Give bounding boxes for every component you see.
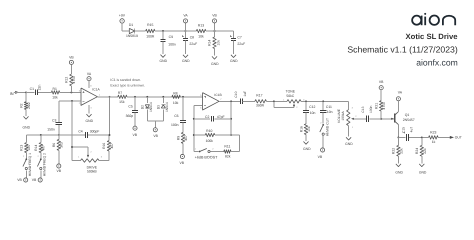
svg-text:100R: 100R [146,35,155,39]
resistor R4 [19,143,31,159]
node junction C6 [182,96,184,98]
svg-text:+6dB BOOST: +6dB BOOST [195,155,218,159]
svg-text:R14: R14 [34,145,38,151]
ground [86,114,94,123]
wire [347,101,349,110]
svg-text:1uF: 1uF [243,91,247,97]
resistor R7 [118,91,127,104]
svg-text:100n: 100n [369,105,373,113]
node junction bias [70,91,72,93]
wire boost jog [231,135,240,152]
power VB bias [69,56,74,75]
svg-text:GND: GND [23,126,31,130]
capacitor C15 [402,127,414,141]
resistor R11 [224,145,231,159]
svg-text:R24: R24 [415,148,419,154]
svg-text:IC1B: IC1B [214,93,222,97]
wire [122,30,129,32]
svg-text:VB: VB [180,161,185,165]
wire [266,100,287,102]
wire [60,91,81,93]
svg-text:360p: 360p [126,114,134,118]
capacitor C13 [361,105,373,122]
svg-text:C10: C10 [234,91,238,97]
label +6dB BOOST [195,155,218,159]
svg-text:C12: C12 [309,105,315,109]
svg-text:Exact type is unknown.: Exact type is unknown. [110,84,145,88]
node junction fb2b [230,134,232,136]
svg-text:VB: VB [69,56,74,60]
transistor Q1 [391,104,415,137]
svg-text:VA: VA [87,72,92,76]
resistor R3 [102,141,114,151]
svg-text:1N5819: 1N5819 [126,34,138,38]
svg-text:22k: 22k [399,148,403,154]
svg-text:R1: R1 [53,87,57,91]
power VB C5 [133,126,138,137]
svg-text:4k7: 4k7 [110,143,114,149]
svg-text:2N5457: 2N5457 [403,118,415,122]
svg-text:R7: R7 [118,91,122,95]
svg-text:15k: 15k [119,100,125,104]
svg-text:Q1: Q1 [405,113,410,117]
wire [242,100,255,102]
capacitor C1 [30,84,42,95]
svg-text:C6: C6 [174,114,178,118]
svg-text:C8: C8 [190,35,194,39]
wire [369,118,394,120]
wire [25,92,27,101]
switch SW4 cut [320,122,327,148]
logo aion [412,13,455,25]
node junction source [397,136,399,138]
resistor R9 [176,132,188,154]
svg-text:1k: 1k [432,140,436,144]
ground [345,137,353,146]
node junction gate [380,118,382,120]
svg-text:GND: GND [230,59,238,63]
svg-text:aionfx.com: aionfx.com [416,58,458,68]
op-amp IC1A [79,85,101,110]
wire [88,105,90,114]
svg-text:VB: VB [57,169,62,173]
node junction D2 [146,96,148,98]
svg-text:1N914: 1N914 [149,102,153,112]
potentiometer VOLUME [337,106,366,129]
svg-text:VB: VB [133,133,138,137]
svg-text:IC1A: IC1A [92,88,100,92]
svg-text:C1: C1 [30,87,34,91]
diode D2 [141,97,153,121]
wire [26,134,85,136]
power VB diodes [153,128,158,138]
power VB SW4 [318,148,325,159]
power VB SW1 [17,178,28,182]
ground [395,164,403,174]
node junction fb2a [230,118,232,120]
capacitor C5 [126,97,138,126]
wire [147,121,163,128]
svg-text:VB: VB [32,178,37,182]
svg-text:4k7: 4k7 [184,135,188,141]
power VB [212,13,217,31]
svg-text:10k: 10k [173,101,179,105]
resistor R13 [186,24,206,39]
svg-text:VA: VA [398,90,403,94]
svg-text:4u7: 4u7 [409,127,413,133]
wire [438,136,450,138]
svg-text:GND: GND [211,62,219,66]
ground [419,164,427,174]
diode D1 [126,23,138,38]
label HI/MID FREQ 1 [28,153,32,176]
svg-text:D1: D1 [129,23,133,27]
svg-text:IN: IN [10,91,14,96]
svg-text:10k: 10k [198,35,204,39]
ground [230,55,238,63]
wire [347,126,349,137]
svg-text:R17: R17 [256,93,262,97]
label HI/MID FREQ 2 [42,153,46,176]
svg-text:D3: D3 [157,105,161,109]
svg-text:22uF: 22uF [189,42,197,46]
capacitor C3 [47,119,62,135]
svg-text:Schematic v1.1 (11/27/2023): Schematic v1.1 (11/27/2023) [347,45,458,55]
svg-text:R23: R23 [430,130,436,134]
svg-text:1k5: 1k5 [27,145,31,151]
subtitle text [347,45,458,55]
resistor R14 [207,31,220,56]
wire [194,106,203,152]
svg-text:D2: D2 [141,105,145,109]
node junction C3 [58,134,60,136]
ground [303,142,311,151]
svg-text:HI/MID CUT: HI/MID CUT [326,118,330,136]
wire [155,30,186,32]
svg-text:GND: GND [182,59,190,63]
svg-text:50kC: 50kC [286,94,294,98]
svg-text:HI/MID FREQ 1: HI/MID FREQ 1 [28,153,32,176]
svg-text:150n: 150n [47,128,55,132]
svg-text:VB: VB [379,80,384,84]
capacitor C7 [230,31,245,54]
svg-text:C5: C5 [128,105,132,109]
node IN [10,91,26,96]
svg-text:VB: VB [153,134,158,138]
svg-text:VA: VA [183,13,188,17]
svg-text:10k: 10k [307,126,311,132]
svg-text:C11: C11 [326,105,332,109]
node junction tie [71,146,73,148]
svg-text:100k: 100k [206,139,214,143]
svg-text:R16: R16 [299,126,303,132]
resistor R2 [19,102,31,116]
wire [25,135,27,143]
svg-text:VB: VB [17,178,22,182]
capacitor C6 [171,97,186,133]
svg-text:GND: GND [345,142,353,146]
resistor R23 [429,130,439,144]
node OUT [450,135,462,139]
svg-text:R8: R8 [173,91,177,95]
svg-text:470k: 470k [72,76,76,84]
wire [38,91,51,93]
op-amp IC1B [200,93,222,110]
note text [110,78,145,87]
svg-text:R9: R9 [176,136,180,140]
resistor R10 [193,129,231,143]
svg-text:GND: GND [419,170,427,174]
svg-text:R10: R10 [206,129,212,133]
svg-text:R21: R21 [375,103,379,109]
ground [160,55,168,64]
svg-text:C13: C13 [361,106,365,112]
svg-text:OUT: OUT [455,135,462,139]
power VA Q1 [396,90,402,104]
capacitor C10 [234,91,247,104]
node junction D3 [162,96,164,98]
resistor R15 [146,23,155,38]
capacitor C12 [303,101,316,124]
wire [109,97,111,141]
resistor R21 [375,101,387,119]
+9V power symbol [119,13,126,31]
svg-text:100n: 100n [168,43,176,47]
switch SW2 [37,155,45,178]
power VB R9 [180,154,185,164]
wire [40,135,42,143]
wire [108,151,110,161]
svg-text:+9V: +9V [119,13,126,17]
power VB R21 [379,80,384,101]
resistor R16 [299,124,311,141]
capacitor C4 [78,130,99,138]
resistor R8 [172,91,180,104]
svg-text:C4: C4 [78,130,82,134]
capacitor C11 [320,101,333,123]
node junction C9 [162,30,164,32]
svg-text:390R: 390R [256,104,265,108]
svg-text:82k: 82k [225,154,231,158]
svg-text:GND: GND [86,119,94,123]
potentiometer TONE [274,90,305,109]
svg-text:IC1 is sanded down.: IC1 is sanded down. [110,78,141,82]
label HI/MID CUT [326,118,330,136]
wire [135,30,146,32]
wire [398,136,405,138]
power VB R6 [57,164,62,173]
svg-text:R14: R14 [207,40,211,46]
svg-text:R13: R13 [19,145,23,151]
wire [301,100,348,102]
capacitor C2 [193,115,231,122]
svg-text:C15: C15 [402,127,406,133]
svg-text:300pF: 300pF [90,130,100,134]
node junction C12 [305,100,307,102]
svg-text:100n: 100n [171,123,179,127]
svg-text:R13: R13 [198,24,204,28]
node junction VB [214,30,216,32]
title text [406,32,459,41]
svg-text:GND: GND [160,59,168,63]
svg-text:HI/MID FREQ 2: HI/MID FREQ 2 [42,153,46,176]
wire [26,91,35,93]
node junction out2 [230,100,232,102]
svg-text:10k: 10k [52,95,58,99]
node junction outnet [421,136,423,138]
svg-text:GND: GND [395,170,403,174]
svg-text:10n: 10n [310,111,316,115]
wire [88,134,109,136]
ground [23,116,31,129]
wire [219,100,240,102]
wire [71,101,73,161]
svg-text:500kB: 500kB [87,170,97,174]
svg-text:R2: R2 [19,103,23,107]
capacitor C9 [160,31,176,54]
potentiometer DRIVE [72,147,109,174]
svg-text:VB: VB [318,155,323,159]
svg-text:47pF: 47pF [217,115,225,119]
power VB SW2 [32,178,43,182]
power VA [183,13,188,31]
svg-text:R11: R11 [224,145,230,149]
svg-text:22n: 22n [38,84,42,90]
wire [206,30,234,32]
node junction tone [273,100,275,102]
resistor R24 [415,137,427,163]
wire [72,146,88,148]
node junction ch2 [40,134,42,136]
svg-text:3k3: 3k3 [60,142,64,148]
resistor R5 [34,143,46,159]
power VA opamp [87,72,92,88]
svg-text:470k: 470k [382,102,386,110]
svg-text:GND: GND [303,147,311,151]
svg-text:R16: R16 [102,143,106,149]
wire [59,101,81,123]
ground [211,56,219,65]
ground [182,55,190,63]
svg-text:C9: C9 [169,35,173,39]
svg-text:C7: C7 [237,35,241,39]
diode D3 [157,97,169,121]
wire [230,101,232,135]
node junction fb [71,100,73,102]
svg-text:TONE: TONE [286,90,296,94]
capacitor C8 [182,31,197,54]
svg-text:R6: R6 [52,143,56,147]
node junction C5 [134,96,136,98]
resistor R12 [65,74,77,92]
svg-text:22uF: 22uF [237,42,245,46]
node junction out1 [109,96,111,98]
svg-text:22k: 22k [423,148,427,154]
resistor R17 [255,93,267,107]
svg-text:Xotic SL Drive: Xotic SL Drive [406,32,459,41]
svg-text:4k7: 4k7 [42,145,46,151]
svg-text:1N914: 1N914 [165,102,169,112]
svg-text:10n: 10n [327,110,333,114]
svg-text:R12: R12 [65,77,69,83]
node junction input [25,91,27,93]
svg-text:10k: 10k [216,40,220,46]
svg-text:R15: R15 [147,23,153,27]
node junction C11 [322,100,324,102]
switch SW3 boost [194,147,224,152]
svg-text:VB: VB [212,13,217,17]
switch SW1 [23,155,31,178]
wire [97,96,117,98]
resistor R1 [51,87,59,99]
resistor R6 [52,135,64,164]
svg-text:2M2: 2M2 [27,102,31,109]
wire [127,96,203,98]
node junction VA [185,30,187,32]
wire [409,136,429,138]
svg-text:C2: C2 [205,115,209,119]
svg-text:R22: R22 [392,148,396,154]
svg-text:100kA: 100kA [341,111,345,121]
resistor R22 [392,137,404,163]
website text [416,58,458,68]
